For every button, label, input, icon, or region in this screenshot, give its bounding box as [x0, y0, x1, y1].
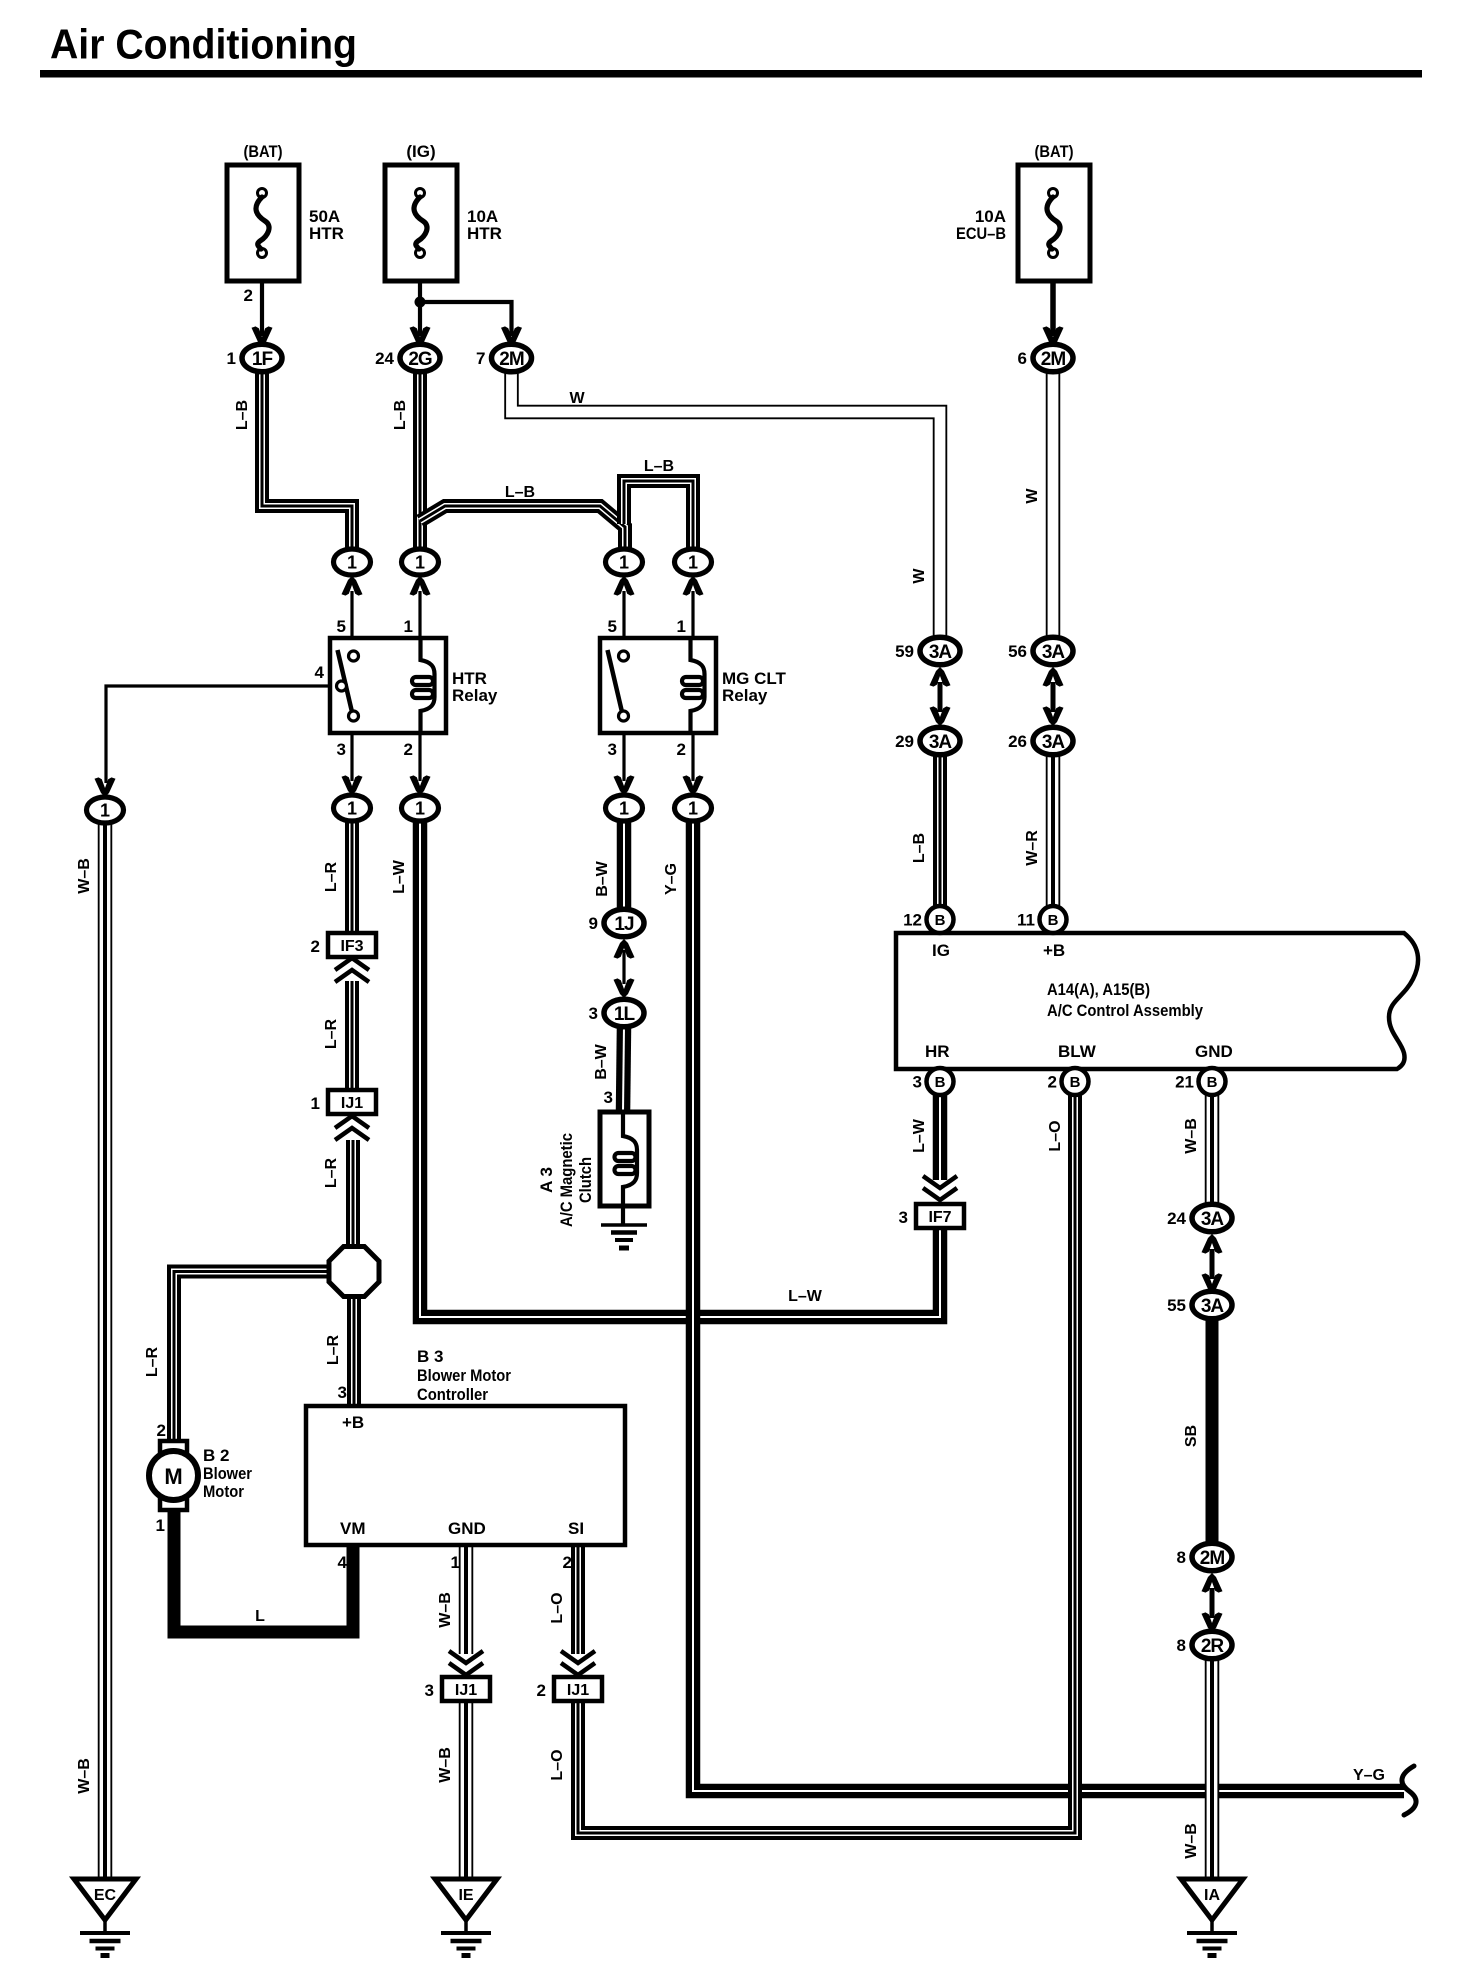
connector oval MG CLT relay pin 3 output: [606, 795, 643, 821]
connector 3A pin 29: [895, 727, 960, 755]
pin 21 B GND: [1175, 1068, 1225, 1095]
wire relay bottom pin stem x=693: [691, 733, 694, 781]
connector oval HTR relay pin 3 output: [334, 795, 371, 821]
label L-B wire 1F: [234, 400, 251, 430]
svg-text:1J: 1J: [614, 914, 634, 935]
svg-text:B: B: [1048, 912, 1059, 929]
svg-text:A/C Magnetic: A/C Magnetic: [557, 1133, 576, 1227]
fuse 50A HTR: [227, 165, 299, 281]
blower motor B2: [149, 1441, 198, 1510]
wire W-B controller GND to IJ1: [459, 1545, 474, 1654]
svg-text:2: 2: [404, 740, 413, 759]
relay HTR: [330, 638, 498, 733]
svg-text:W–B: W–B: [437, 1747, 454, 1783]
arrows up into IF3: [335, 958, 369, 982]
svg-text:B–W: B–W: [593, 1043, 610, 1079]
svg-text:Blower Motor: Blower Motor: [417, 1366, 511, 1385]
label W-B GND controller: [437, 1592, 454, 1628]
wire W-B A/C control GND to 3A pin24: [1205, 1094, 1220, 1206]
svg-text:L–B: L–B: [392, 400, 409, 430]
label W right vertical: [1024, 488, 1041, 504]
svg-text:L–O: L–O: [549, 1749, 566, 1780]
arrow down into oval below relay x=624: [614, 775, 635, 795]
svg-text:Controller: Controller: [417, 1385, 488, 1404]
label SB: [1183, 1425, 1200, 1447]
arrow down of connector pair x=1053,726: [1043, 706, 1064, 726]
svg-text:1: 1: [619, 553, 629, 573]
label (IG) fuse 2: [406, 142, 435, 161]
pin 2 controller SI: [563, 1553, 572, 1572]
svg-text:IJ1: IJ1: [341, 1095, 363, 1112]
label L-R between IF3 IJ1: [323, 1018, 340, 1049]
svg-text:B–W: B–W: [594, 860, 611, 896]
wire L-O IJ1 to A/C control BLW: [578, 1094, 1075, 1833]
label BLW: [1058, 1042, 1097, 1061]
svg-text:HR: HR: [925, 1042, 950, 1061]
svg-text:1: 1: [451, 1553, 460, 1572]
wire relay top pin stem x=693: [691, 591, 694, 638]
connector oval MG CLT relay pin 1: [675, 549, 712, 575]
wire B-W from 1L to A/C magnetic clutch: [623, 1026, 624, 1112]
svg-text:W: W: [911, 568, 928, 584]
wire stem between connector pair x=1053: [1051, 682, 1056, 712]
svg-text:5: 5: [608, 617, 617, 636]
wire stem between connector pair x=940: [938, 682, 943, 712]
svg-text:W–R: W–R: [1024, 830, 1041, 866]
svg-text:+B: +B: [1043, 941, 1065, 960]
svg-text:59: 59: [895, 642, 914, 661]
wire relay bottom pin stem x=352: [350, 733, 353, 781]
arrow down of connector pair x=1212,1293: [1202, 1273, 1223, 1293]
relay MG CLT: [600, 638, 787, 733]
svg-text:1: 1: [415, 553, 425, 573]
svg-text:L–O: L–O: [549, 1592, 566, 1623]
pin 2 MG CLT relay: [677, 740, 686, 759]
connector 3A pin 26: [1008, 727, 1073, 755]
svg-text:L–W: L–W: [391, 859, 408, 894]
svg-text:Clutch: Clutch: [576, 1157, 595, 1203]
arrows down into IJ1 pin 3: [449, 1651, 483, 1675]
svg-text:2M: 2M: [499, 349, 524, 370]
connector 3A pin 59: [895, 637, 960, 665]
svg-text:Relay: Relay: [452, 686, 498, 705]
pin 5 MG CLT relay: [608, 617, 617, 636]
label HTR fuse 1: [309, 224, 344, 243]
torn end of Y-G wire: [1402, 1766, 1416, 1815]
svg-text:2: 2: [311, 937, 320, 956]
ground EC: [74, 1879, 136, 1956]
connector 2G pin 24: [375, 344, 440, 372]
svg-text:24: 24: [1167, 1209, 1186, 1228]
label Blower: [203, 1464, 252, 1483]
svg-text:L–B: L–B: [505, 484, 535, 501]
wire L-B fuse 1F to HTR relay pin 5 connector: [262, 372, 352, 551]
pin 2 blower motor: [157, 1421, 166, 1440]
svg-text:IF3: IF3: [340, 938, 363, 955]
fuse 10A ECU-B: [1018, 165, 1090, 281]
label GND controller: [448, 1519, 486, 1538]
wire W from 2M pin7 to 3A pin59: [512, 372, 941, 641]
svg-text:2M: 2M: [1200, 1548, 1225, 1569]
arrow down into oval below relay x=352: [342, 775, 363, 795]
svg-text:3A: 3A: [1042, 642, 1066, 663]
pin 1 controller GND: [451, 1553, 460, 1572]
label (BAT) fuse 3: [1035, 142, 1074, 161]
connector 3A pin 55: [1167, 1291, 1232, 1319]
svg-text:L–R: L–R: [325, 1334, 342, 1365]
arrow up of connector pair x=940,667: [930, 667, 951, 687]
svg-text:B: B: [935, 912, 946, 929]
label B-W to clutch: [593, 1043, 610, 1079]
svg-text:A/C Control Assembly: A/C Control Assembly: [1047, 1001, 1203, 1020]
svg-text:B 3: B 3: [417, 1347, 443, 1366]
wire L-B fuse 2G to HTR relay pin 1 connector: [413, 372, 427, 551]
svg-text:55: 55: [1167, 1296, 1186, 1315]
connector 1J pin 9: [589, 909, 644, 937]
arrow down into oval below relay x=420: [410, 775, 431, 795]
arrow down of connector pair x=940,726: [930, 706, 951, 726]
svg-text:3A: 3A: [929, 732, 953, 753]
pin 2 fuse 1: [244, 286, 253, 305]
arrow up of connector pair x=1053,667: [1043, 667, 1064, 687]
svg-text:1: 1: [156, 1516, 165, 1535]
wire L-B upper loop to MG CLT relay pin 1 connector: [624, 481, 693, 551]
label Blower Motor: [417, 1366, 511, 1385]
connector 2R pin 8: [1177, 1631, 1232, 1659]
connector 2M pin 6: [1018, 344, 1073, 372]
svg-text:Y–G: Y–G: [1353, 1767, 1385, 1784]
arrow up into oval above relay x=624: [614, 576, 635, 596]
svg-text:W–B: W–B: [76, 858, 93, 894]
svg-text:2G: 2G: [408, 349, 432, 370]
arrow up into 1J: [614, 939, 635, 959]
label SI: [568, 1519, 584, 1538]
svg-text:A14(A), A15(B): A14(A), A15(B): [1047, 980, 1150, 999]
wire L-W from HR pin3 to IF7: [933, 1094, 948, 1180]
svg-text:L–B: L–B: [911, 833, 928, 863]
wire L-O controller SI to IJ1: [571, 1545, 585, 1654]
arrows down into IF7: [923, 1176, 957, 1200]
svg-text:2: 2: [1048, 1073, 1057, 1092]
svg-text:(BAT): (BAT): [244, 142, 283, 161]
label L-B to IG: [911, 833, 928, 863]
connector oval HTR relay pin 1: [402, 549, 439, 575]
svg-text:1: 1: [100, 801, 110, 821]
label W-B below IJ1: [437, 1747, 454, 1783]
svg-text:SI: SI: [568, 1519, 584, 1538]
label A 3: [537, 1167, 556, 1193]
svg-text:3A: 3A: [1201, 1296, 1225, 1317]
arrow into connector oval x=511.5: [501, 326, 522, 346]
svg-text:1: 1: [347, 799, 357, 819]
label W-R to +B: [1024, 830, 1041, 866]
label HTR fuse 2: [467, 224, 502, 243]
label A14(A), A15(B): [1047, 980, 1150, 999]
wire SB from 3A pin55 to 2M pin8: [1206, 1317, 1219, 1545]
junction IF7 pin 3: [899, 1204, 964, 1228]
svg-text:2: 2: [244, 286, 253, 305]
label Motor: [203, 1482, 244, 1501]
label W left vertical: [911, 568, 928, 584]
svg-text:56: 56: [1008, 642, 1027, 661]
wire branch to 2M pin 7: [420, 302, 512, 336]
svg-text:2: 2: [157, 1421, 166, 1440]
svg-text:Air Conditioning: Air Conditioning: [50, 21, 357, 68]
svg-text:L–R: L–R: [144, 1346, 161, 1377]
svg-text:8: 8: [1177, 1548, 1186, 1567]
wire W-B IJ1 to ground IE: [459, 1701, 474, 1879]
arrow down of connector pair x=1212,1632: [1202, 1612, 1223, 1632]
svg-text:7: 7: [476, 349, 485, 368]
connector oval MG CLT relay pin 5: [606, 549, 643, 575]
label +B controller: [342, 1413, 364, 1432]
svg-text:1: 1: [688, 553, 698, 573]
label HR: [925, 1042, 950, 1061]
junction IF3 pin 2: [311, 933, 376, 957]
svg-text:L–R: L–R: [323, 1018, 340, 1049]
pin 2 HTR relay: [404, 740, 413, 759]
svg-text:IG: IG: [932, 941, 950, 960]
connector oval HTR relay pin 4 line: [87, 797, 124, 823]
svg-text:2: 2: [677, 740, 686, 759]
svg-text:4: 4: [338, 1553, 348, 1572]
label +B: [1043, 941, 1065, 960]
wire fuse 10A ECU-B output: [1050, 281, 1056, 336]
wire W-B from 2R pin8 to ground IA: [1205, 1657, 1220, 1879]
pin 3 B HR: [913, 1068, 954, 1095]
label VM: [340, 1519, 366, 1538]
svg-text:L–O: L–O: [1047, 1120, 1064, 1151]
svg-text:VM: VM: [340, 1519, 366, 1538]
svg-text:29: 29: [895, 732, 914, 751]
svg-text:+B: +B: [342, 1413, 364, 1432]
svg-text:Blower: Blower: [203, 1464, 252, 1483]
svg-text:IF7: IF7: [928, 1209, 951, 1226]
svg-text:3A: 3A: [929, 642, 953, 663]
svg-text:L–B: L–B: [644, 458, 674, 475]
svg-text:W–B: W–B: [1183, 1118, 1200, 1154]
svg-text:(IG): (IG): [406, 142, 435, 161]
arrow into connector oval x=420: [410, 326, 431, 346]
wire L-B from 3A pin29 to A/C control IG: [933, 753, 947, 908]
svg-text:M: M: [164, 1464, 182, 1489]
wire from HTR relay pin 4: [106, 686, 336, 783]
svg-text:26: 26: [1008, 732, 1027, 751]
svg-text:12: 12: [903, 911, 922, 930]
pin 1 HTR relay: [404, 617, 413, 636]
A/C magnetic clutch A3: [600, 1112, 649, 1224]
svg-text:1F: 1F: [252, 349, 273, 370]
svg-text:3A: 3A: [1201, 1209, 1225, 1230]
label L-R below relay: [323, 861, 340, 892]
svg-text:Relay: Relay: [722, 686, 768, 705]
svg-text:1: 1: [311, 1094, 320, 1113]
wire L-B branch to MG CLT relay pin 5 connector: [420, 506, 625, 551]
label W horizontal: [569, 390, 585, 407]
svg-text:5: 5: [337, 617, 346, 636]
wire Y-G from MG CLT pin2 connector to torn end: [693, 820, 1404, 1791]
arrow up into oval above relay x=693: [683, 576, 704, 596]
arrow up of connector pair x=1212,1234: [1202, 1234, 1223, 1254]
svg-text:3: 3: [608, 740, 617, 759]
ground IA: [1181, 1879, 1243, 1956]
svg-text:B: B: [1207, 1074, 1218, 1091]
title Air Conditioning: [50, 21, 357, 68]
label L-B horizontal branch: [505, 484, 535, 501]
svg-text:GND: GND: [1195, 1042, 1233, 1061]
label A/C Control Assembly: [1047, 1001, 1203, 1020]
svg-text:W: W: [1024, 488, 1041, 504]
pin 3 magnetic clutch: [604, 1088, 613, 1107]
label L-R octagon to motor: [144, 1346, 161, 1377]
label L motor wire: [255, 1608, 265, 1625]
label Controller: [417, 1385, 488, 1404]
svg-text:W–B: W–B: [437, 1592, 454, 1628]
svg-text:W–B: W–B: [76, 1758, 93, 1794]
wire stem between connector pair x=1212: [1210, 1249, 1215, 1279]
pin 1 blower motor: [156, 1516, 165, 1535]
label W-B left lower: [76, 1758, 93, 1794]
svg-text:HTR: HTR: [309, 224, 344, 243]
svg-text:2R: 2R: [1201, 1636, 1225, 1657]
arrows down into IJ1 pin 2: [561, 1651, 595, 1675]
svg-text:Y–G: Y–G: [663, 863, 680, 895]
svg-text:L–B: L–B: [234, 400, 251, 430]
ground symbol of magnetic clutch: [601, 1225, 647, 1248]
A/C control assembly A14(A) A15(B) box: [896, 933, 1418, 1069]
svg-text:W: W: [569, 390, 585, 407]
svg-text:1: 1: [688, 799, 698, 819]
pin 3 controller +B: [338, 1383, 347, 1402]
junction IJ1 pin 3: [425, 1677, 490, 1701]
label GND: [1195, 1042, 1233, 1061]
wire stem between connector pair x=1212: [1210, 1588, 1215, 1618]
connector oval HTR relay pin 2 output: [402, 795, 439, 821]
label 10A: [467, 207, 498, 226]
label B-W below relay: [594, 860, 611, 896]
arrow down into oval of relay pin 4 line: [95, 777, 116, 797]
label L-O BLW: [1047, 1120, 1064, 1151]
wire W-B left to ground EC: [98, 822, 113, 1879]
svg-text:6: 6: [1018, 349, 1027, 368]
svg-text:L–W: L–W: [911, 1118, 928, 1153]
label L-O SI upper: [549, 1592, 566, 1623]
wire relay bottom pin stem x=420: [418, 733, 421, 781]
wire relay top pin stem x=624: [622, 591, 625, 638]
pin 3 HTR relay: [337, 740, 346, 759]
svg-text:BLW: BLW: [1058, 1042, 1097, 1061]
svg-text:IJ1: IJ1: [455, 1682, 477, 1699]
label L-R below IJ1: [323, 1157, 340, 1188]
svg-text:W–B: W–B: [1183, 1823, 1200, 1859]
svg-text:1: 1: [227, 349, 236, 368]
svg-text:9: 9: [589, 914, 598, 933]
svg-text:8: 8: [1177, 1636, 1186, 1655]
svg-text:1: 1: [619, 799, 629, 819]
svg-text:2: 2: [537, 1681, 546, 1700]
wire L blower motor to controller VM: [174, 1503, 353, 1632]
svg-text:GND: GND: [448, 1519, 486, 1538]
connector 1L pin 3: [589, 999, 644, 1027]
connector 3A pin 24: [1167, 1204, 1232, 1232]
junction IJ1 pin 2: [537, 1677, 602, 1701]
svg-text:3: 3: [589, 1004, 598, 1023]
label L-W below relay: [391, 859, 408, 894]
pin 4 controller VM: [338, 1553, 348, 1572]
arrow into connector oval x=1053: [1043, 326, 1064, 346]
label W-B left upper: [76, 858, 93, 894]
blower motor controller B3 box: [306, 1406, 625, 1545]
pin 1 MG CLT relay: [677, 617, 686, 636]
junction IJ1 pin 1: [311, 1090, 376, 1114]
arrows up into IJ1 pin 1: [335, 1116, 369, 1140]
wire L-R relay pin3 connector to IF3: [345, 820, 359, 933]
wire relay top pin stem x=420: [418, 591, 421, 638]
svg-text:SB: SB: [1183, 1425, 1200, 1447]
svg-text:IJ1: IJ1: [567, 1682, 589, 1699]
svg-text:24: 24: [375, 349, 394, 368]
arrow down into 1L: [614, 978, 635, 998]
svg-text:2: 2: [563, 1553, 572, 1572]
wire L-R octagon splice to blower motor controller +B: [347, 1295, 361, 1406]
arrow up of connector pair x=1212,1573: [1202, 1573, 1223, 1593]
wire W from 2M pin6 to 3A pin56: [1046, 372, 1061, 641]
pin 3 MG CLT relay: [608, 740, 617, 759]
connector oval MG CLT relay pin 2 output: [675, 795, 712, 821]
svg-text:ECU–B: ECU–B: [956, 224, 1006, 243]
label L-R octagon to controller: [325, 1334, 342, 1365]
wire stem between 1J and 1L: [622, 950, 625, 984]
svg-text:3: 3: [604, 1088, 613, 1107]
svg-text:IE: IE: [458, 1887, 473, 1904]
label B 3: [417, 1347, 443, 1366]
title rule: [40, 70, 1422, 78]
svg-text:Motor: Motor: [203, 1482, 244, 1501]
label 50A: [309, 207, 340, 226]
connector 2M pin 7: [476, 344, 531, 372]
svg-text:(BAT): (BAT): [1035, 142, 1074, 161]
octagon splice node: [329, 1247, 379, 1297]
svg-text:IA: IA: [1204, 1887, 1220, 1904]
label Y-G horizontal: [1353, 1767, 1385, 1784]
label IG: [932, 941, 950, 960]
svg-text:B 2: B 2: [203, 1446, 229, 1465]
wire W-R from 3A pin26 to A/C control +B: [1046, 753, 1061, 908]
pin 4 HTR relay: [315, 663, 325, 682]
svg-text:1: 1: [404, 617, 413, 636]
pin 2 B BLW: [1048, 1068, 1089, 1095]
wire relay top pin stem x=352: [350, 591, 353, 638]
label Clutch: [576, 1157, 595, 1203]
label L-W HR: [911, 1118, 928, 1153]
svg-text:B: B: [935, 1074, 946, 1091]
pin 12 B IG: [903, 906, 953, 933]
junction dot at IG fuse branch: [415, 297, 426, 308]
label W-B GND21: [1183, 1118, 1200, 1154]
label L-B wire 2G: [392, 400, 409, 430]
svg-text:L: L: [255, 1608, 265, 1625]
label (BAT) fuse 1: [244, 142, 283, 161]
svg-text:L–R: L–R: [323, 1157, 340, 1188]
svg-text:EC: EC: [94, 1887, 117, 1904]
arrow up into oval above relay x=420: [410, 576, 431, 596]
svg-text:HTR: HTR: [467, 224, 502, 243]
svg-text:3: 3: [913, 1073, 922, 1092]
arrow into connector oval x=262: [252, 326, 273, 346]
label B 2: [203, 1446, 229, 1465]
connector 1F: [227, 344, 282, 372]
label ECU-B: [956, 224, 1006, 243]
